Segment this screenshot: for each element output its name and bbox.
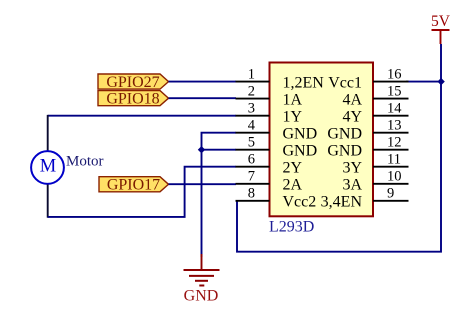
svg-text:GPIO17: GPIO17 (107, 177, 160, 194)
svg-text:GND: GND (327, 126, 362, 143)
pin 14 stub (373, 115, 409, 117)
pin 8 stub (236, 200, 270, 202)
svg-text:12: 12 (387, 134, 402, 150)
svg-text:GND: GND (283, 126, 318, 143)
pin 12 stub (373, 149, 409, 151)
svg-text:10: 10 (387, 169, 402, 185)
junction at 5V rail / pin16 (437, 78, 444, 85)
wire motor bottom vertical (47, 185, 49, 218)
svg-text:7: 7 (248, 169, 255, 185)
svg-text:8: 8 (248, 186, 255, 202)
svg-text:GND: GND (283, 143, 318, 160)
svg-text:GND: GND (184, 288, 219, 305)
svg-text:1A: 1A (283, 91, 303, 108)
wire 5V rail: down right side, across bottom, up to pin 8 (237, 44, 441, 252)
pin 10 stub (373, 183, 409, 185)
svg-text:2: 2 (248, 83, 255, 99)
wire GPIO18 to pin2 (169, 97, 237, 99)
svg-text:14: 14 (387, 100, 402, 116)
pin 16 stub (373, 81, 409, 83)
svg-text:16: 16 (387, 66, 402, 82)
pin 13 stub (373, 132, 409, 134)
pin 11 stub (373, 166, 409, 168)
svg-text:4Y: 4Y (342, 109, 362, 126)
pin 15 stub (373, 98, 409, 100)
wire GPIO17 to pin7 (169, 183, 237, 185)
svg-text:2Y: 2Y (283, 160, 303, 177)
port GPIO18 (98, 91, 169, 108)
svg-text:3Y: 3Y (342, 160, 362, 177)
svg-text:3,4EN: 3,4EN (321, 194, 363, 211)
svg-text:Vcc1: Vcc1 (328, 74, 362, 91)
pin 3 stub (236, 115, 270, 117)
wire pin16 to 5V rail (406, 81, 441, 83)
svg-text:GPIO27: GPIO27 (106, 74, 159, 91)
pin 1 stub (236, 81, 270, 83)
power symbol 5V (431, 13, 451, 44)
junction pin4/pin5 GND (198, 146, 205, 153)
svg-text:3: 3 (248, 100, 255, 116)
pin 4 stub (236, 132, 270, 134)
svg-text:M: M (40, 156, 56, 176)
svg-text:Motor: Motor (66, 154, 104, 170)
svg-text:5: 5 (248, 134, 255, 150)
pin 7 stub (236, 183, 270, 185)
svg-text:9: 9 (387, 186, 394, 202)
wire pin4 to GND rail (202, 133, 237, 257)
svg-text:13: 13 (387, 117, 402, 133)
port GPIO27 (98, 74, 169, 91)
svg-text:6: 6 (248, 151, 255, 167)
svg-text:1,2EN: 1,2EN (283, 74, 325, 91)
pin 5 stub (236, 149, 270, 151)
port GPIO17 (99, 177, 169, 194)
svg-text:5V: 5V (431, 13, 451, 30)
svg-text:4: 4 (248, 117, 256, 133)
wire pin3 net: motor top to pin 3 (48, 115, 236, 117)
pin 6 stub (236, 166, 270, 168)
svg-text:GPIO18: GPIO18 (106, 91, 159, 108)
svg-text:4A: 4A (342, 91, 362, 108)
wire motor top vertical (47, 115, 49, 152)
svg-text:L293D: L293D (269, 219, 314, 236)
wire motor bottom to pin6 riser (48, 167, 236, 217)
pin 2 stub (236, 98, 270, 100)
svg-text:1: 1 (248, 66, 255, 82)
svg-text:1Y: 1Y (283, 109, 303, 126)
svg-text:Vcc2: Vcc2 (283, 194, 317, 211)
svg-text:3A: 3A (342, 177, 362, 194)
svg-text:15: 15 (387, 83, 402, 99)
op-amp U1 body L293D (270, 63, 374, 217)
motor M1 (31, 151, 64, 184)
svg-text:GND: GND (327, 143, 362, 160)
wire pin5 to GND rail (202, 149, 237, 151)
pin 9 stub (373, 200, 409, 202)
wire GPIO27 to pin1 (169, 81, 237, 83)
svg-text:2A: 2A (283, 177, 303, 194)
svg-text:11: 11 (387, 151, 401, 167)
ground GND symbol (184, 254, 220, 305)
